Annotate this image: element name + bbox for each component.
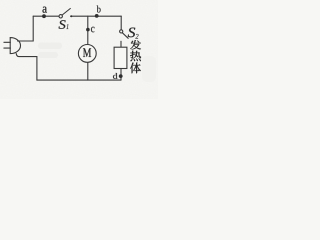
wire heater to bottom rail bbox=[120, 69, 122, 81]
switch S2 pivot circle bbox=[120, 30, 123, 33]
wire S2 to heater bbox=[120, 41, 122, 47]
wire motor to bottom rail bbox=[87, 63, 89, 81]
wire plug to top-left corner bbox=[18, 16, 34, 41]
node c dot bbox=[86, 28, 90, 32]
wire middle branch riser bbox=[87, 16, 89, 44]
label S2 (S) bbox=[128, 28, 135, 38]
switch S1 contact dot bbox=[70, 15, 72, 17]
node a dot bbox=[42, 14, 46, 18]
heater label char 体 bbox=[130, 63, 141, 74]
plug prong bottom bbox=[4, 47, 10, 49]
heater label char 热 bbox=[130, 51, 141, 61]
node d dot bbox=[119, 74, 123, 78]
switch S2 blade bbox=[122, 33, 128, 39]
switch S1 pivot circle bbox=[59, 15, 62, 18]
motor M circle bbox=[78, 45, 96, 63]
wire bottom rail bbox=[37, 79, 121, 81]
plug body bbox=[10, 38, 20, 54]
wire top rail left bbox=[33, 15, 59, 17]
label S2 (sub 2) bbox=[135, 34, 138, 39]
wire right riser to S2 bbox=[120, 16, 122, 29]
wire plug bottom lead bbox=[16, 54, 37, 81]
node b dot bbox=[95, 14, 99, 18]
label a bbox=[42, 7, 46, 13]
label c bbox=[91, 27, 94, 32]
heater element box bbox=[114, 47, 127, 68]
motor label M bbox=[83, 48, 91, 57]
plug prong top bbox=[4, 41, 10, 43]
label b bbox=[97, 6, 101, 13]
label S1 (S) bbox=[59, 20, 66, 29]
label d bbox=[113, 73, 117, 79]
switch S1 blade bbox=[62, 9, 70, 16]
label S1 (sub 1) bbox=[66, 24, 68, 29]
wire top rail right bbox=[71, 15, 122, 17]
heater label char 发 bbox=[130, 40, 141, 49]
